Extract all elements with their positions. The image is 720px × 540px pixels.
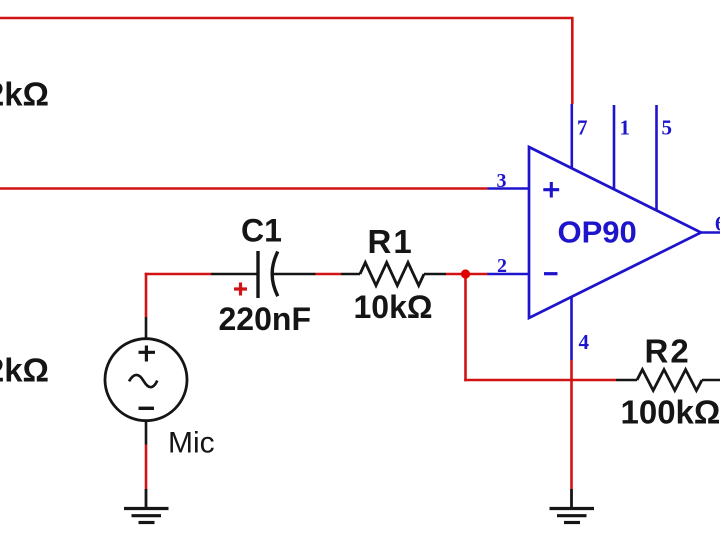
- svg-text:R2: R2: [645, 333, 691, 370]
- svg-text:10kΩ: 10kΩ: [354, 289, 433, 325]
- wire top feedback (red): [0, 18, 572, 104]
- op-amp noninverting + mark: [543, 182, 559, 198]
- op-amp pin 2 stub (blue): [488, 273, 530, 276]
- resistor R2 lead right (black): [702, 379, 720, 382]
- resistor R2 zigzag: [637, 370, 702, 391]
- svg-text:22kΩ: 22kΩ: [0, 352, 49, 389]
- svg-text:1: 1: [620, 116, 631, 140]
- svg-text:3: 3: [497, 170, 507, 192]
- op-amp pin 1 stub (blue vertical): [613, 105, 616, 189]
- junction node dot: [461, 269, 470, 278]
- ground under op-amp: lead: [570, 489, 573, 508]
- op-amp U1 triangle: [529, 147, 701, 318]
- wire to pin 3 (red): [0, 187, 488, 190]
- op-amp pin 4 stub (blue vertical): [570, 297, 573, 360]
- mic sine wave: [129, 375, 157, 387]
- svg-text:100kΩ: 100kΩ: [621, 394, 720, 431]
- op-amp pin 3 stub (blue): [488, 187, 530, 190]
- resistor R1 zigzag: [360, 263, 424, 286]
- ground under mic: bars: [124, 509, 169, 523]
- capacitor C1 lead left (black): [211, 273, 257, 276]
- svg-text:OP90: OP90: [558, 215, 637, 250]
- svg-text:22kΩ: 22kΩ: [0, 76, 49, 113]
- svg-text:220nF: 220nF: [219, 301, 311, 337]
- ground under op-amp: bars: [550, 509, 595, 523]
- svg-text:7: 7: [577, 116, 588, 140]
- op-amp pin 7 stub (blue vertical): [570, 104, 573, 169]
- svg-text:5: 5: [662, 116, 673, 140]
- ground under mic: lead: [145, 489, 148, 508]
- svg-text:C1: C1: [241, 213, 282, 249]
- svg-text:6: 6: [715, 212, 720, 236]
- mic source circle: [105, 339, 187, 421]
- resistor R1 lead left (black): [341, 273, 360, 276]
- svg-text:R1: R1: [368, 223, 414, 260]
- capacitor C1 plates: [258, 251, 278, 298]
- wire C1 to R1 (red): [316, 273, 342, 276]
- resistor R1 lead right (black): [424, 273, 446, 276]
- wire mic bottom to ground (red): [145, 445, 148, 490]
- svg-text:Mic: Mic: [168, 427, 215, 460]
- mic plus sign: [139, 346, 156, 362]
- op-amp pin 5 stub (blue vertical): [655, 105, 658, 210]
- capacitor C1 lead right (black): [273, 273, 316, 276]
- wire R1 to pin 2 (red): [446, 273, 488, 276]
- wire junction down (red): [464, 274, 467, 381]
- svg-text:2: 2: [497, 255, 507, 277]
- wire pin 4 to ground (red): [570, 360, 573, 489]
- wire mic to C1 (red): [145, 273, 211, 276]
- mic lead bottom (black): [145, 421, 148, 445]
- capacitor C1 polarity + (red): [234, 283, 247, 296]
- wire feedback bottom horizontal (red): [464, 379, 616, 382]
- mic lead top (black): [145, 317, 148, 339]
- op-amp pin 6 stub (blue): [701, 231, 720, 234]
- wire mic top vertical (red): [145, 273, 148, 317]
- op-amp inverting - mark: [544, 272, 558, 275]
- mic minus sign: [139, 407, 155, 410]
- resistor R2 lead left (black): [616, 379, 637, 382]
- svg-text:4: 4: [579, 330, 590, 354]
